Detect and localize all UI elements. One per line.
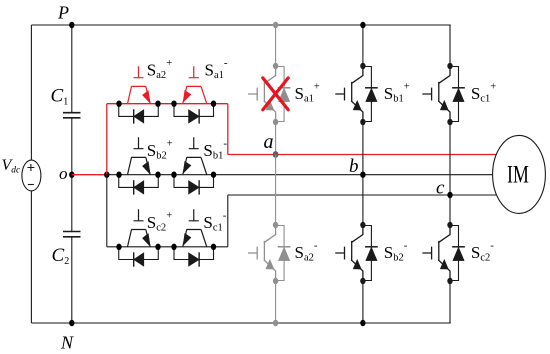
node b dot [360, 172, 365, 178]
wire: top rail P [31, 24, 450, 26]
wire: red vertical junction to row1 [106, 104, 108, 175]
wire: leg b collector from P rail [362, 25, 364, 66]
wire: leg b to node b [362, 122, 364, 225]
row3 dots [116, 244, 216, 250]
motor IM [493, 135, 546, 213]
svg-text:IM: IM [507, 162, 529, 189]
wire: left rail upper [30, 25, 32, 160]
wire: black vertical junction to row3 [106, 175, 108, 247]
wire: leg a emitter to N rail [275, 281, 277, 323]
capacitor C1 [51, 86, 81, 118]
svg-text:P: P [57, 3, 69, 23]
switch Sc1+ [423, 63, 464, 125]
gate lead wire Sa1+ [275, 122, 277, 155]
wire: capacitor branch upper [71, 25, 73, 112]
switch Sb1+ [336, 63, 377, 125]
wire: red o to junction [72, 174, 107, 176]
switch Sa1- (red right module) [174, 66, 214, 123]
wire: red row1 down to a-line [227, 104, 229, 155]
switch Sc2- [423, 222, 464, 284]
voltage source Vdc [2, 157, 41, 191]
wire: row3 horizontal [107, 246, 228, 248]
row2 dots [116, 172, 216, 178]
wire: leg c emitter to N rail [449, 281, 451, 323]
junction dot [104, 172, 109, 178]
wire: row3 up to c line [227, 195, 229, 247]
wire: bottom rail N [31, 322, 450, 324]
wire: capacitor branch lower [71, 237, 73, 323]
wire: row2 horizontal to IM (b line) [107, 174, 493, 176]
svg-text:o: o [59, 164, 68, 183]
wire: leg c to node c [449, 122, 451, 225]
node N dot [69, 320, 74, 326]
row1 dots [116, 101, 216, 107]
switch Sc1- (right module) [174, 209, 214, 266]
wire: leg b emitter to N rail [362, 281, 364, 323]
node dot leg b top [360, 22, 365, 28]
capacitor C2 [52, 232, 81, 268]
node o [69, 172, 74, 178]
wire: row1 red horizontal [107, 103, 228, 105]
switch Sb1- (right module) [174, 137, 214, 194]
wire: leg a middle [275, 155, 277, 226]
switch Sa2+ (red left module) [119, 66, 159, 123]
wire: left rail lower [30, 191, 32, 323]
svg-text:a: a [264, 131, 274, 153]
fault cross X [263, 78, 288, 110]
switch Sb2- [336, 222, 377, 284]
svg-text:b: b [349, 156, 359, 177]
svg-text:c: c [436, 178, 445, 199]
node dot leg b bottom [360, 320, 365, 326]
svg-text:N: N [60, 333, 74, 353]
wire: red a phase line to IM [228, 154, 496, 156]
wire: leg c collector from P rail [449, 25, 451, 66]
node dot on P rail [69, 22, 74, 28]
wire: capacitor branch middle [71, 118, 73, 231]
switch Sa2- (gray) [249, 222, 290, 284]
node dot leg a bottom [273, 320, 278, 326]
wire: leg a collector from P rail [275, 25, 277, 66]
switch Sa1+ (faulted gray) [249, 63, 290, 125]
node a dot [273, 151, 279, 158]
node c dot [447, 192, 452, 198]
switch Sc2+ (left module) [119, 209, 159, 266]
switch Sb2+ (left module) [119, 137, 159, 194]
node dot leg a top [273, 22, 278, 28]
wire: c phase line to IM [228, 194, 497, 196]
